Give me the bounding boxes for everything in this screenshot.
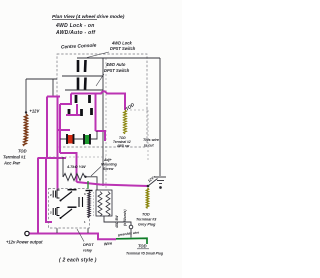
wire: green to TOD terminal small plug [116, 238, 147, 244]
coil L4: olive scribble to TOD terminal 3 [146, 188, 148, 208]
svg-text:DPST Switch: DPST Switch [104, 68, 130, 73]
svg-text:This wire: This wire [143, 138, 159, 142]
label: 4WD Lock DPST Switch with leader [110, 41, 136, 52]
wire: magenta bottom run [30, 234, 117, 240]
wire: magenta vertical x47 [46, 97, 48, 159]
wire: magenta S2 right vertical [95, 94, 97, 132]
wire: LED row link [60, 131, 97, 139]
svg-text:( 2 each style ): ( 2 each style ) [59, 258, 97, 264]
label: TOD Terminal #2 [113, 136, 131, 148]
resistor R3 zigzag [106, 192, 110, 217]
wire: relay box pins to bottom bus [87, 228, 89, 233]
svg-text:TOD: TOD [142, 213, 150, 217]
svg-text:is cut: is cut [144, 144, 154, 148]
wire: magenta vertical x38 to bottom run [37, 158, 39, 233]
resistor box R2/R3 [96, 190, 112, 216]
terminal: +12V power ring [25, 231, 29, 235]
wire: box bottom to terminal [104, 216, 131, 225]
wire: black drop from rect to magenta corner [52, 79, 54, 97]
ground symbol (right rail) [155, 177, 167, 188]
label: This wire is cut [143, 138, 159, 148]
label: 4WD Auto DPST Switch with leader [104, 62, 130, 73]
svg-text:Screw: Screw [103, 167, 114, 171]
svg-text:AWD/Auto - off: AWD/Auto - off [55, 30, 96, 36]
svg-text:Grey Plug: Grey Plug [138, 223, 156, 227]
relay dashed box (DPDT relay) [49, 189, 90, 229]
node: bus right end [147, 185, 150, 188]
wire: magenta S2 top bus with hop to TOD coil [71, 91, 125, 110]
svg-text:DPST Switch: DPST Switch [110, 46, 136, 51]
wire: magenta below LEDs to bus [60, 153, 77, 182]
svg-text:+12V: +12V [30, 109, 41, 114]
node: +12V junction [25, 111, 27, 113]
green tick on bus [87, 181, 89, 189]
wire: S1 bottom horizontal [65, 89, 103, 91]
relay K2 armature [60, 217, 62, 219]
svg-text:Terminal #1: Terminal #1 [3, 155, 26, 160]
dashed beside coil [93, 192, 95, 216]
wire: magenta S2 horizontals [60, 103, 72, 105]
node: resistor right junction [84, 176, 86, 178]
wire: left rectangle side [25, 79, 27, 112]
LED D2 (green) [84, 134, 91, 145]
svg-text:4WD Auto: 4WD Auto [105, 62, 126, 67]
coil L2: olive scribble (console TOD plug) [124, 110, 127, 134]
wire: magenta vertical x57 into relay coil [57, 97, 59, 191]
svg-text:+12v Power output: +12v Power output [6, 240, 43, 245]
svg-text:4WD sw: 4WD sw [116, 144, 130, 148]
svg-text:Plan View (4 wheel drive mode): Plan View (4 wheel drive mode) [52, 14, 125, 20]
relay K2 coil bracket [57, 208, 60, 216]
wire: magenta vertical x46 to relay 2 [46, 158, 52, 222]
dashed: cut-wire marker vertical [147, 110, 149, 160]
svg-text:Terminal #5 Small Plug: Terminal #5 Small Plug [126, 252, 164, 256]
svg-text:4WD Lock: 4WD Lock [111, 41, 133, 46]
relay K1 coil pins [53, 191, 55, 198]
switch S1: 4WD Lock DPST contacts [78, 60, 86, 90]
terminal: small circle [129, 225, 133, 229]
label: Adj mounting screw with leader [101, 158, 118, 171]
wire: magenta S2 left vertical [59, 104, 61, 153]
dashed: console bottom extra line [49, 156, 106, 158]
wire: magenta tie at y158 [38, 157, 67, 159]
relay K2 coil pins [53, 208, 55, 215]
svg-text:TOD: TOD [138, 244, 147, 249]
switch S2: 4WD Auto contacts (black bars) [69, 95, 92, 116]
svg-text:Mounting: Mounting [101, 163, 118, 167]
wire: S1 mid horizontal [62, 75, 103, 77]
coil L3: vertical scribble left of resistor box [86, 190, 93, 192]
svg-text:TOD: TOD [18, 149, 27, 154]
LED D1 (red) [67, 134, 75, 144]
wire: magenta jog right of LEDs [96, 131, 106, 141]
wire: dot to ground diagonal [148, 179, 158, 187]
svg-text:4.7kΩ ½W: 4.7kΩ ½W [66, 164, 86, 169]
svg-text:4WD Lock - on: 4WD Lock - on [55, 23, 95, 29]
resistor R2 zigzag [98, 192, 102, 217]
title text: Plan View (4 wheel drive mode) [52, 14, 125, 36]
wire: magenta S2 stub [70, 94, 72, 104]
svg-text:(± 80cm/s): (± 80cm/s) [123, 209, 127, 226]
wire: vertical drop x103 [102, 58, 104, 186]
svg-text:relay: relay [83, 248, 93, 253]
coil L1: brown wire scribble to TOD terminal 1 [23, 114, 27, 146]
label: TOD Terminal #3 Grey Plug [136, 213, 157, 227]
wire: R1 left lead up [62, 157, 64, 177]
svg-text:Terminal #3: Terminal #3 [136, 218, 157, 222]
relay K1 armature [60, 200, 62, 202]
wire: magenta main bus to ground dot [77, 182, 149, 186]
svg-text:DPDT: DPDT [83, 242, 94, 247]
label: TOD Terminal #1 Acc Pwr [3, 149, 27, 166]
wire: left rectangle top [26, 78, 57, 80]
wire: right rail down to ground [159, 58, 161, 176]
wire: resistor to box top [86, 177, 98, 190]
relay K1 coil bracket [57, 190, 60, 198]
wire: magenta corner top [47, 96, 60, 98]
svg-text:Adj+: Adj+ [103, 158, 112, 162]
svg-text:Acc Pwr: Acc Pwr [3, 161, 21, 166]
internal dashed divider [105, 58, 107, 190]
wire: top feed to right rail [77, 57, 160, 59]
dashed: cut-wire marker horizontal [130, 109, 148, 111]
relay common contact bars [79, 197, 83, 207]
centre console dashed box [57, 54, 147, 147]
